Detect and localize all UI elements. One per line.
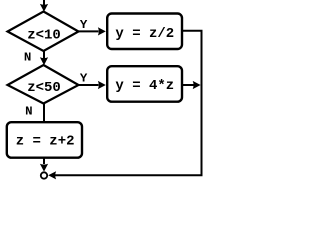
svg-text:y = 4*z: y = 4*z bbox=[115, 78, 174, 94]
process box z = z+2 bbox=[7, 122, 82, 158]
arrowhead of box2 exit meeting rail bbox=[193, 81, 201, 89]
process box y = z/2 bbox=[107, 14, 182, 50]
svg-text:z<10: z<10 bbox=[27, 27, 61, 43]
decision diamond z<50 bbox=[8, 65, 79, 104]
wire entry from top bbox=[43, 0, 45, 6]
wire diamond1 right vertex to box1 bbox=[79, 30, 99, 32]
svg-text:z = z+2: z = z+2 bbox=[16, 134, 75, 150]
decision diamond z<10 bbox=[8, 12, 79, 52]
svg-text:Y: Y bbox=[80, 72, 88, 86]
arrowhead into decision z<10 bbox=[40, 4, 48, 12]
arrowhead into merge circle (from top) bbox=[40, 164, 48, 172]
wire box1 exit right, down right side, to merge point bbox=[52, 31, 202, 176]
svg-text:y = z/2: y = z/2 bbox=[115, 26, 174, 42]
arrowhead into merge circle (from right) bbox=[48, 171, 56, 179]
wire diamond1 bottom to diamond2 bbox=[43, 51, 45, 59]
arrowhead into decision z<50 bbox=[40, 57, 48, 65]
arrowhead into box2 bbox=[98, 81, 106, 89]
process box y = 4*z bbox=[107, 66, 182, 102]
wire box2 exit to right rail bbox=[183, 84, 194, 86]
merge connector circle bbox=[41, 172, 47, 178]
svg-text:N: N bbox=[24, 50, 31, 64]
wire diamond2 bottom to box3 bbox=[43, 104, 45, 123]
wire box3 bottom to merge circle bbox=[43, 158, 45, 164]
svg-text:z<50: z<50 bbox=[27, 80, 61, 96]
svg-text:Y: Y bbox=[80, 18, 88, 32]
wire diamond2 right vertex to box2 bbox=[79, 84, 99, 86]
arrowhead into box1 bbox=[98, 27, 106, 35]
svg-text:N: N bbox=[25, 104, 32, 118]
